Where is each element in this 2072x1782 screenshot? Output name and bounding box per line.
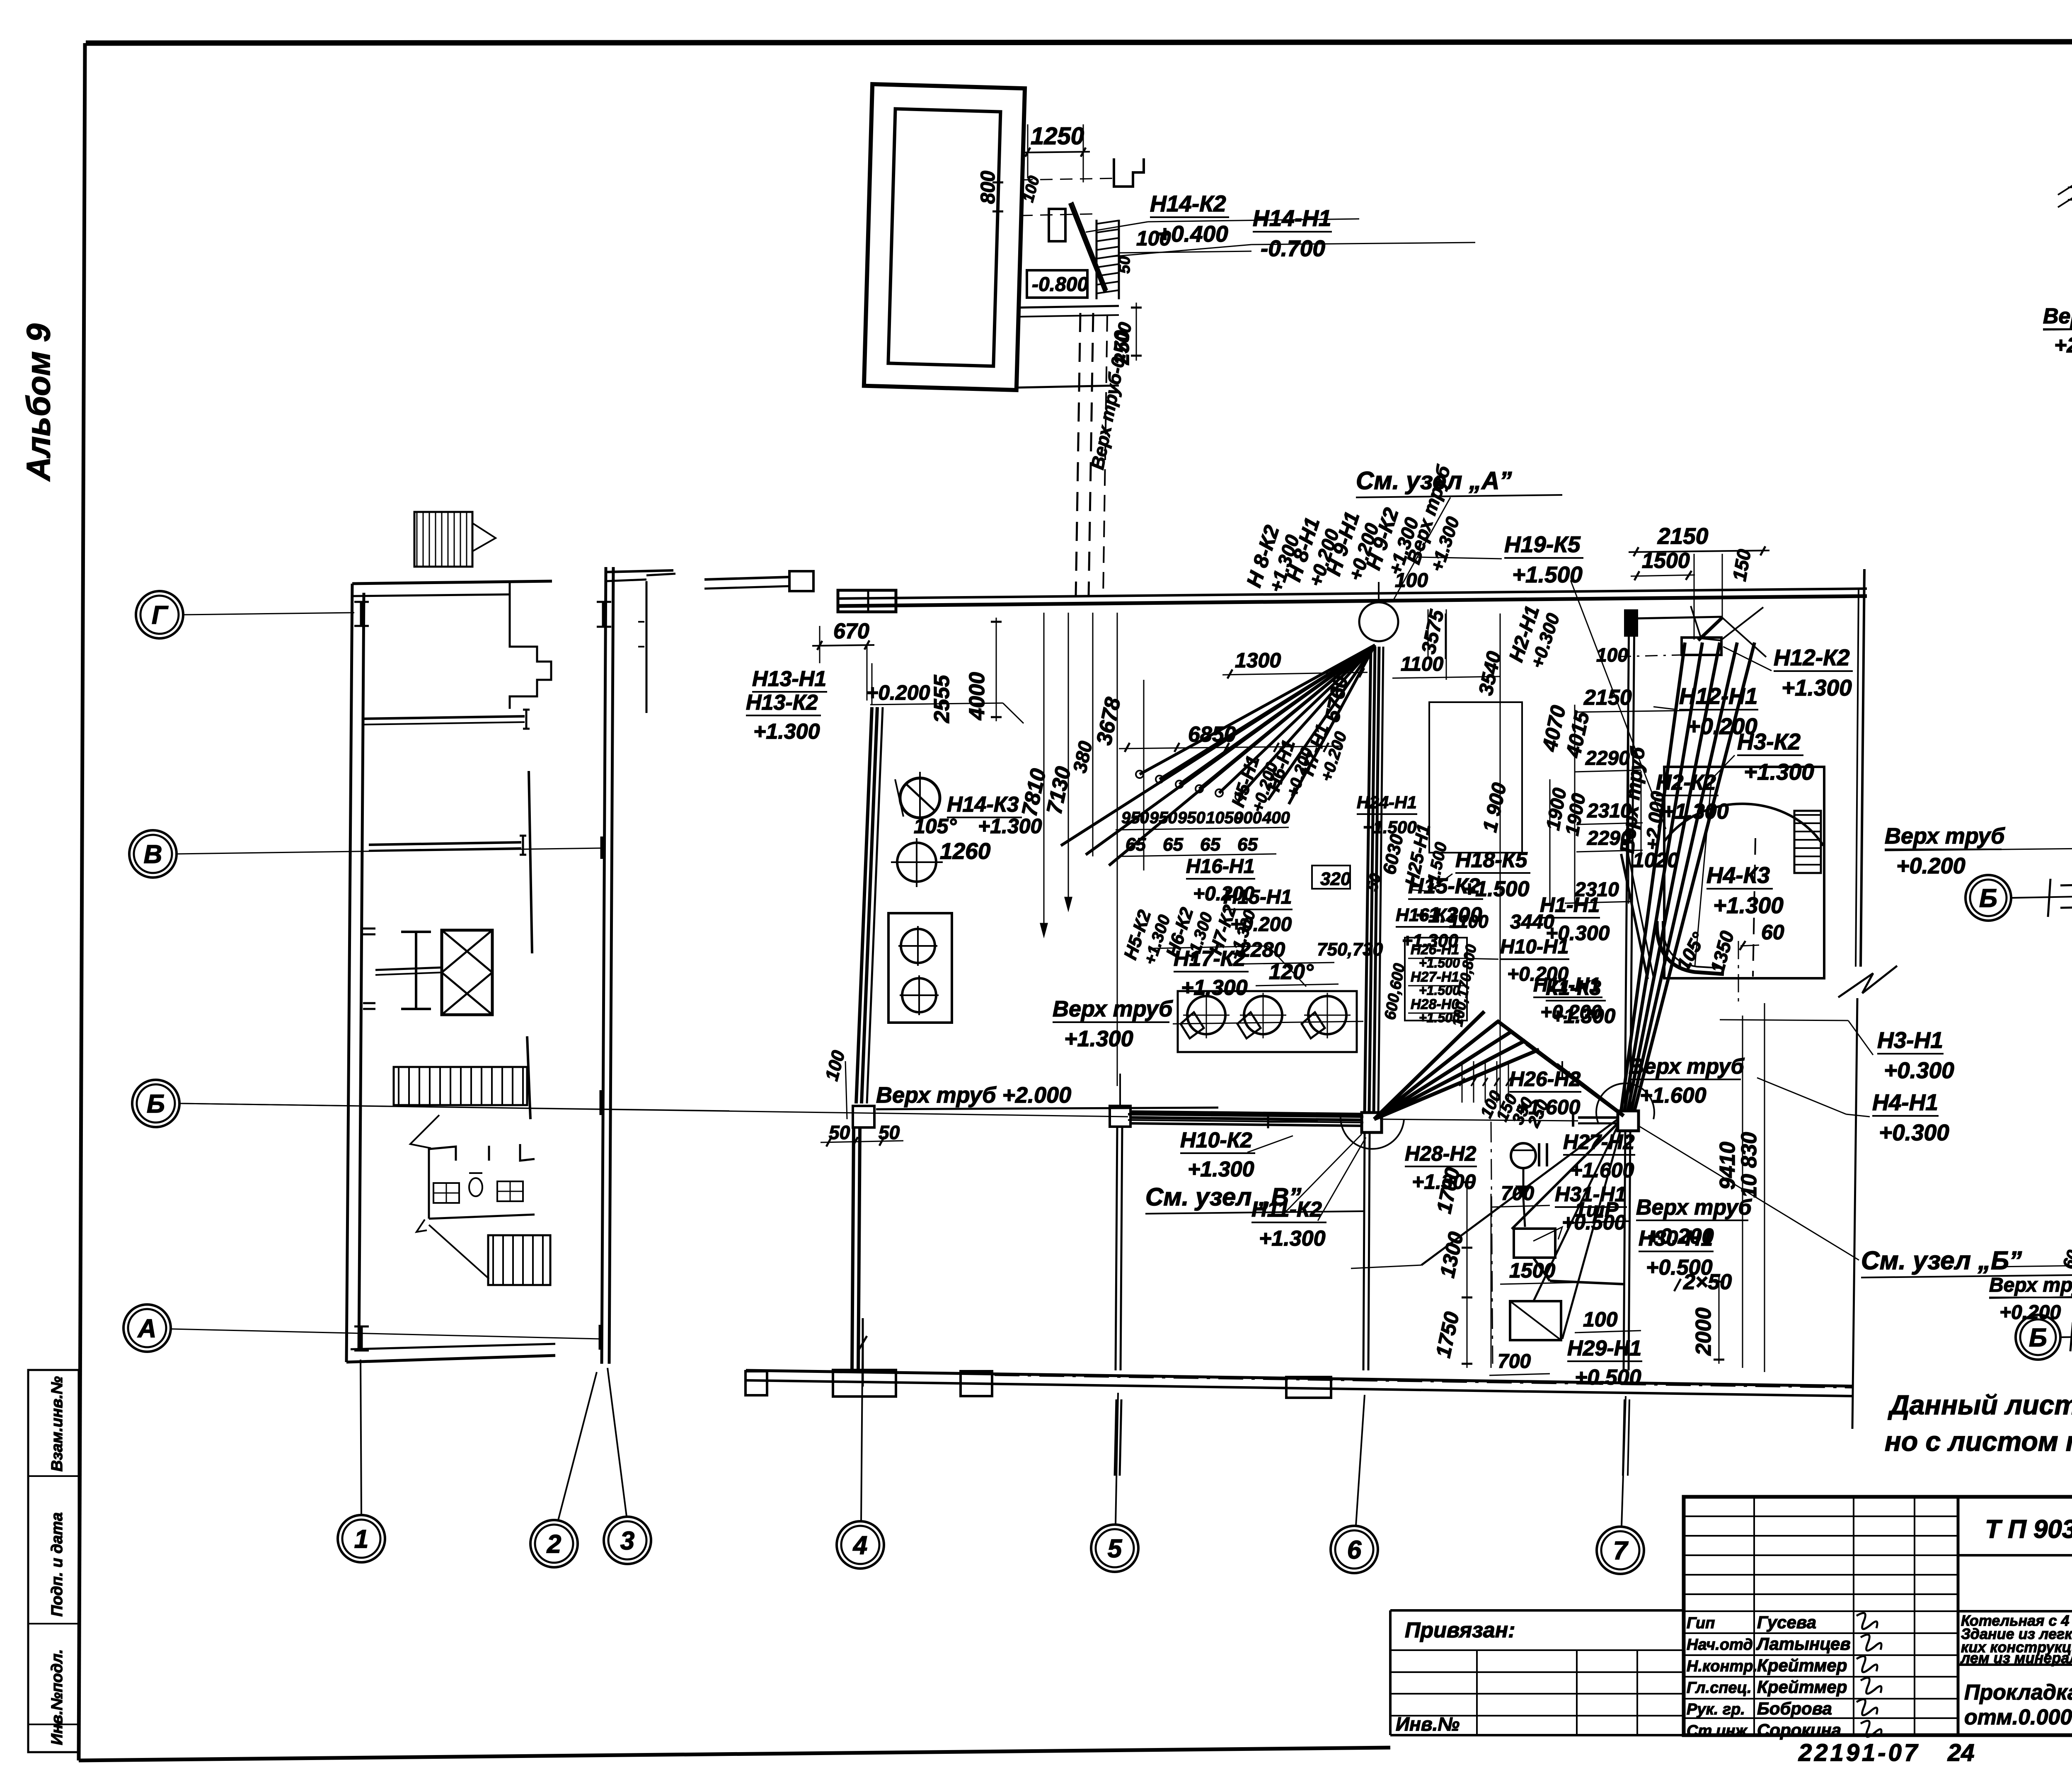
label H10-K2 +1.300 xyxy=(1180,1128,1255,1181)
svg-text:1: 1 xyxy=(354,1525,368,1554)
uzel B arrow pipe from circle xyxy=(2012,895,2072,898)
svg-text:Н16-К2: Н16-К2 xyxy=(1396,905,1457,925)
main plan bottom wall xyxy=(746,1370,1852,1386)
axis circle 2 xyxy=(530,1520,578,1567)
svg-text:См. узел „Б”: См. узел „Б” xyxy=(1861,1246,2022,1275)
svg-text:100: 100 xyxy=(1583,1308,1618,1331)
svg-text:2310: 2310 xyxy=(1587,800,1631,822)
svg-text:+0.300: +0.300 xyxy=(1884,1057,1954,1083)
sheet frame left border xyxy=(79,43,85,1760)
label H18-K5 +1.500 xyxy=(1455,848,1530,901)
svg-text:Н4-К3: Н4-К3 xyxy=(1706,862,1770,888)
fan rays from top riser point xyxy=(1140,645,1375,774)
flow device circle at top of riser xyxy=(1359,602,1398,641)
far detached wall piece with end block xyxy=(704,577,789,579)
svg-text:Н13-К2: Н13-К2 xyxy=(746,691,818,715)
svg-text:+1.300: +1.300 xyxy=(753,720,820,744)
fan rays from hub2 down-left xyxy=(1421,1119,1618,1265)
svg-text:Н18-К5: Н18-К5 xyxy=(1455,848,1528,872)
label H13-H1 +0.200 / H13-K2 +1.300 xyxy=(752,667,827,692)
svg-text:Привязан:: Привязан: xyxy=(1405,1618,1515,1642)
uzel A horizontal pipe pair xyxy=(2068,185,2072,187)
axis 4 tick cross xyxy=(862,1318,864,1387)
svg-text:Данный лист рассматривать совм: Данный лист рассматривать совмест- xyxy=(1888,1389,2072,1420)
svg-text:Латынцев: Латынцев xyxy=(1756,1634,1851,1654)
stair flight with treads xyxy=(394,1067,527,1105)
label H14-H1 -0.700 xyxy=(1253,205,1332,261)
pipe bundle H13 from tank line down-left xyxy=(856,707,872,1103)
svg-text:Н.контр.: Н.контр. xyxy=(1687,1658,1757,1675)
svg-text:См. узел „А”: См. узел „А” xyxy=(1356,467,1512,495)
label H12-H1 +0.200 xyxy=(1679,683,1758,739)
right wall break symbol xyxy=(1838,966,1897,997)
label K1-K3 +1.300 xyxy=(1546,976,1616,1028)
axis 6 leader xyxy=(1356,1395,1365,1525)
label H29-H1 +0.500 xyxy=(1567,1336,1642,1389)
svg-text:2310: 2310 xyxy=(1574,879,1619,901)
pier rect right of tank xyxy=(1049,209,1065,241)
pipe bundle hub2 rising to top wall xyxy=(1621,642,1685,1111)
svg-text:Прокладка труб. План на: Прокладка труб. План на xyxy=(1964,1680,2072,1704)
svg-text:2290: 2290 xyxy=(1585,747,1630,769)
svg-text:Н14-К3: Н14-К3 xyxy=(947,793,1019,817)
dim chain verticals xyxy=(1043,613,1045,936)
dim verticals 380 3575 area xyxy=(1428,609,1429,659)
fuel tank inner wall xyxy=(888,109,1000,366)
axis circle 3 xyxy=(604,1517,651,1564)
building top wall xyxy=(352,581,552,584)
svg-text:100: 100 xyxy=(1596,644,1628,666)
svg-text:Крейтмер: Крейтмер xyxy=(1757,1656,1847,1675)
equipment rect H29 box xyxy=(1510,1301,1561,1340)
svg-text:+1.300: +1.300 xyxy=(1064,1026,1133,1051)
svg-text:7: 7 xyxy=(1613,1537,1629,1565)
svg-text:Альбом 9: Альбом 9 xyxy=(20,323,57,482)
valve circle near axis 7 area xyxy=(1511,1143,1536,1168)
svg-text:950: 950 xyxy=(1121,809,1149,827)
washroom fixtures - toilet xyxy=(469,1178,482,1196)
svg-text:Н14-Н1: Н14-Н1 xyxy=(1253,205,1331,231)
svg-text:Н17-К2: Н17-К2 xyxy=(1174,947,1246,971)
svg-text:Г: Г xyxy=(152,601,169,630)
svg-text:65: 65 xyxy=(1163,834,1183,855)
funnel lines to H12 box xyxy=(1691,606,1763,640)
pump circle 1260 xyxy=(897,843,936,882)
thick rays from center cluster into hub2 xyxy=(1497,1021,1624,1116)
label H27-H2 +1.600 / H31-H1 +0.500 xyxy=(1563,1130,1635,1182)
svg-text:Н30-Н1: Н30-Н1 xyxy=(1639,1227,1713,1251)
svg-text:Боброва: Боброва xyxy=(1757,1699,1832,1718)
svg-text:1шР: 1шР xyxy=(1575,1198,1619,1221)
pipe elbow to H30 xyxy=(1523,1198,1525,1227)
equipment rect 1500 box xyxy=(1514,1229,1555,1258)
svg-text:2150: 2150 xyxy=(1657,523,1709,549)
label верх труб +1.300 above boilers xyxy=(1053,996,1173,1051)
svg-text:Б: Б xyxy=(147,1090,165,1118)
svg-text:Подп. и дата: Подп. и дата xyxy=(48,1512,66,1617)
dim 1750 tick line bottom xyxy=(1491,1194,1492,1368)
label H1-H1 +0.300 xyxy=(1540,893,1610,945)
axis 2 leader xyxy=(558,1372,597,1520)
pump valve circle H14-K3 xyxy=(900,778,940,818)
svg-text:3440: 3440 xyxy=(1510,911,1554,933)
svg-text:Н10-К2: Н10-К2 xyxy=(1180,1128,1252,1152)
svg-text:700: 700 xyxy=(1501,1183,1534,1205)
svg-text:Нач.отд: Нач.отд xyxy=(1687,1636,1753,1654)
svg-text:Н24-Н1: Н24-Н1 xyxy=(1357,793,1417,812)
dash-dot partition center line xyxy=(1491,1122,1493,1364)
I-beam column symbol xyxy=(401,931,431,933)
svg-text:Сорокина: Сорокина xyxy=(1757,1720,1841,1740)
pipe stub left of hub2 xyxy=(1578,1116,1618,1119)
interior partition wall 1 xyxy=(363,716,525,719)
svg-text:+0.200: +0.200 xyxy=(866,681,930,704)
svg-text:+1.600: +1.600 xyxy=(1640,1084,1706,1108)
label H11-H1 +0.200 xyxy=(1533,974,1602,1023)
svg-text:+1.600: +1.600 xyxy=(1516,1096,1581,1119)
svg-text:1100: 1100 xyxy=(1449,912,1489,932)
elevation box -0.800 xyxy=(1027,270,1087,298)
svg-text:320: 320 xyxy=(1320,869,1351,889)
leader to uzel B detail xyxy=(1996,1264,2072,1267)
washroom partitions xyxy=(429,1147,456,1219)
svg-text:1500: 1500 xyxy=(1509,1259,1555,1282)
svg-text:Верх труб: Верх труб xyxy=(1636,1195,1752,1220)
label H17-K2 +1.300 xyxy=(1174,947,1249,1000)
storage tank rect with dome xyxy=(1664,767,1824,978)
wall step shape right of tank xyxy=(1114,158,1144,187)
svg-text:Крейтмер: Крейтмер xyxy=(1757,1677,1847,1697)
svg-text:Верх труб: Верх труб xyxy=(2043,304,2072,328)
svg-text:+0.200: +0.200 xyxy=(1687,713,1757,739)
axis 4 leader xyxy=(861,1318,863,1521)
bottom wall inner dash line xyxy=(995,1375,1852,1388)
svg-text:отм.0.000 в осях „1-7”: отм.0.000 в осях „1-7” xyxy=(1964,1705,2072,1729)
svg-text:105°: 105° xyxy=(914,815,957,838)
svg-text:-0.700: -0.700 xyxy=(1261,235,1325,261)
elbow pipe H4-K3 xyxy=(1657,921,1724,974)
svg-text:9410: 9410 xyxy=(1716,1142,1740,1190)
label H24-H1 +1.500 xyxy=(1357,793,1417,837)
axis circle 7 xyxy=(1597,1527,1644,1574)
svg-text:Верх труб: Верх труб xyxy=(1989,1274,2072,1296)
svg-text:+1.600: +1.600 xyxy=(1570,1159,1634,1182)
svg-text:Н4-Н1: Н4-Н1 xyxy=(1872,1089,1938,1115)
short wall piece above hub1 xyxy=(1268,1121,1318,1123)
labels H4-H1 +0.300 xyxy=(1872,1089,1949,1145)
labels H15 H16 cluster xyxy=(1186,856,1255,905)
svg-text:Н11-К2: Н11-К2 xyxy=(1251,1198,1322,1222)
axis А leader line xyxy=(171,1329,600,1339)
svg-text:Верх труб: Верх труб xyxy=(1629,1055,1745,1079)
axis circle В xyxy=(129,830,177,878)
svg-text:670: 670 xyxy=(833,619,869,643)
svg-text:2290: 2290 xyxy=(1587,827,1631,849)
tank ladder rungs xyxy=(1794,811,1821,873)
svg-text:Н14-К2: Н14-К2 xyxy=(1150,191,1226,216)
svg-text:+1.300: +1.300 xyxy=(978,815,1042,838)
svg-text:+1.300: +1.300 xyxy=(1259,1227,1326,1251)
main plan right wall xyxy=(1861,569,1864,967)
svg-text:+0.500: +0.500 xyxy=(1575,1365,1641,1389)
svg-text:+0.200: +0.200 xyxy=(1540,1001,1602,1023)
svg-text:Н10-Н1: Н10-Н1 xyxy=(1500,936,1569,958)
line Sm uzel B pointer xyxy=(1351,1265,1421,1268)
svg-text:лем из минераловатных плит.: лем из минераловатных плит. xyxy=(1960,1649,2072,1666)
axis 1 leader xyxy=(361,1360,361,1515)
wall pieces near hub2 left xyxy=(1561,1061,1563,1078)
label Верх труб +0.200 left xyxy=(1885,824,2005,878)
svg-text:50: 50 xyxy=(829,1122,850,1143)
section wall stub marks xyxy=(602,602,605,627)
svg-text:+0.200: +0.200 xyxy=(1230,914,1292,936)
svg-text:Ст.инж.: Ст.инж. xyxy=(1687,1722,1751,1740)
svg-text:5: 5 xyxy=(1108,1535,1123,1563)
label H26-H2 +1.600 xyxy=(1509,1067,1581,1119)
long partition right xyxy=(529,771,532,953)
title block outer and grid xyxy=(1684,1497,2072,1735)
uzel B axis Б circle left xyxy=(1965,875,2011,921)
vertical dim lines right cluster xyxy=(1445,613,1446,659)
chimney hatched block above plan xyxy=(414,512,472,567)
axis Б line across plan xyxy=(180,1103,1128,1117)
pipe bundle along axis Б into hub1 xyxy=(1131,1112,1362,1114)
svg-text:+1.300: +1.300 xyxy=(1744,759,1814,785)
svg-text:6: 6 xyxy=(1347,1536,1362,1564)
label H19-K5 +1.500 xyxy=(1504,531,1583,587)
svg-text:В: В xyxy=(144,840,162,869)
svg-text:2555: 2555 xyxy=(930,674,954,723)
svg-text:Н11-Н1: Н11-Н1 xyxy=(1533,974,1600,996)
svg-text:65: 65 xyxy=(1200,834,1220,855)
dashed line right of tank xyxy=(1753,838,1755,977)
axis circle А xyxy=(123,1304,171,1352)
svg-text:950: 950 xyxy=(1150,809,1177,827)
building bottom wall xyxy=(346,1355,555,1362)
svg-text:Гл.спец.: Гл.спец. xyxy=(1687,1679,1752,1697)
svg-text:Инв.№подл.: Инв.№подл. xyxy=(48,1649,66,1745)
axis Б leader line xyxy=(180,1103,729,1111)
tank outlet dashed pipes down xyxy=(1076,313,1080,596)
svg-text:Инв.№: Инв.№ xyxy=(1396,1713,1460,1735)
svg-text:Н28-Н2: Н28-Н2 xyxy=(1405,1142,1476,1165)
svg-text:750,730: 750,730 xyxy=(1317,939,1383,960)
sheet frame top border xyxy=(86,41,2072,43)
thick rays from center cluster into hub1 xyxy=(1374,1011,1484,1119)
washroom fixtures - sink left xyxy=(433,1183,459,1203)
svg-text:1100: 1100 xyxy=(1401,653,1444,675)
label H4-K3 +1.300 xyxy=(1706,862,1784,918)
platform below tank xyxy=(1019,306,1119,308)
building top-right wall jog xyxy=(510,581,551,709)
label H12-K2 +1.300 xyxy=(1774,645,1853,701)
svg-text:Верх труб: Верх труб xyxy=(1885,824,2005,849)
svg-text:Н27-Н2: Н27-Н2 xyxy=(1563,1130,1634,1154)
svg-text:700: 700 xyxy=(1498,1350,1531,1372)
label H28-H2 +1.300 xyxy=(1405,1142,1477,1193)
ladder hatch strip xyxy=(1096,220,1098,299)
axis 5 leader xyxy=(1116,1393,1118,1524)
tank leader dash line xyxy=(1020,178,1119,180)
svg-text:Н12-К2: Н12-К2 xyxy=(1774,645,1850,670)
svg-text:А: А xyxy=(137,1314,157,1343)
uzel V pipe from left circle xyxy=(2060,1336,2072,1337)
elevator shaft with X bracing xyxy=(442,930,492,1015)
svg-text:Н29-Н1: Н29-Н1 xyxy=(1567,1336,1641,1360)
V node to H12 box xyxy=(1698,618,1722,640)
svg-text:3: 3 xyxy=(620,1527,634,1555)
svg-text:но с листом т.п 903-1-244.87 -: но с листом т.п 903-1-244.87 -ЭМ1-22 xyxy=(1885,1426,2072,1457)
interior wall stub pier xyxy=(363,928,375,930)
pipe from riser to V node under wall xyxy=(1634,617,1722,618)
sheet frame bottom border xyxy=(79,1748,1390,1760)
svg-text:Н19-К5: Н19-К5 xyxy=(1504,531,1581,557)
pipe H14 slanted xyxy=(1070,203,1106,293)
svg-text:+1.300: +1.300 xyxy=(1713,892,1784,918)
axis circle Б (left) xyxy=(132,1080,179,1127)
title block right divider lines xyxy=(1958,1554,2072,1557)
label верх труб +0.200 right xyxy=(1636,1195,1752,1249)
inner rectangle dim box (1 900 region) xyxy=(1429,702,1522,853)
label верх труб +0.200 left xyxy=(1989,1274,2072,1324)
svg-text:2×50: 2×50 xyxy=(1683,1270,1732,1294)
svg-text:4: 4 xyxy=(852,1531,867,1560)
axis Г leader line xyxy=(184,613,354,615)
axis 7 leader xyxy=(1622,1396,1626,1526)
pipe from hub2 down to axis 7 xyxy=(1624,1131,1625,1370)
svg-text:Н13-Н1: Н13-Н1 xyxy=(752,667,826,691)
svg-text:50: 50 xyxy=(1116,256,1133,274)
hub2 junction box (axis 7 x Б) xyxy=(1618,1111,1639,1131)
svg-text:65: 65 xyxy=(1237,834,1258,855)
svg-text:Н12-Н1: Н12-Н1 xyxy=(1679,683,1758,709)
svg-text:800: 800 xyxy=(977,171,999,204)
svg-text:Взам.инв.№: Взам.инв.№ xyxy=(48,1376,66,1472)
label Верх труб +2.000 left xyxy=(2043,304,2072,357)
pipe bundle hub1 rising to fan point xyxy=(1365,647,1371,1113)
svg-text:+0.200: +0.200 xyxy=(1896,853,1965,878)
interior partition wall 2 xyxy=(369,842,521,845)
axis circle 1 xyxy=(338,1515,385,1562)
pipe H13 junction box at axis Б xyxy=(853,1106,874,1127)
svg-text:Н15-Н1: Н15-Н1 xyxy=(1223,886,1292,908)
lower stair hatch xyxy=(488,1235,550,1285)
svg-text:Н15-К2: Н15-К2 xyxy=(1408,874,1480,898)
axis circle 4 xyxy=(837,1521,884,1569)
svg-text:Т П 903-1-244.87: Т П 903-1-244.87 xyxy=(1985,1515,2072,1544)
left attachment table xyxy=(1390,1609,1684,1612)
washroom fixtures - sink right xyxy=(497,1181,523,1201)
svg-text:+1.300: +1.300 xyxy=(1662,800,1729,824)
pipe from hub1 down to axis 6 xyxy=(1363,1132,1365,1370)
H12 equipment box xyxy=(1682,638,1721,655)
svg-text:Гусева: Гусева xyxy=(1757,1612,1816,1632)
dim arrows on verticals xyxy=(1041,924,1047,936)
pipe continues below bottom wall xyxy=(1115,1399,1116,1476)
svg-text:+1.300: +1.300 xyxy=(1188,1157,1254,1181)
svg-text:1500: 1500 xyxy=(1642,549,1690,573)
hub1 junction box (axis 6 x Б) xyxy=(1362,1113,1382,1132)
building outer wall left xyxy=(346,584,352,1362)
svg-text:2280: 2280 xyxy=(1239,938,1285,961)
svg-text:1260: 1260 xyxy=(940,838,991,864)
junction box on axis Б pipe xyxy=(1110,1106,1130,1127)
svg-text:2: 2 xyxy=(547,1530,561,1559)
svg-text:-0.800: -0.800 xyxy=(1032,274,1088,296)
label H14-K2 +0.400 xyxy=(1150,191,1229,247)
svg-text:10 830: 10 830 xyxy=(1737,1132,1761,1198)
svg-text:950: 950 xyxy=(1178,809,1205,827)
label H3-K2 +1.300 xyxy=(1737,729,1814,785)
svg-text:Н2-К2: Н2-К2 xyxy=(1656,771,1716,795)
axis circle 5 xyxy=(1091,1525,1138,1572)
pier block at riser-wall joint xyxy=(1625,611,1637,635)
three boiler circles with diamonds xyxy=(1178,991,1357,1052)
label верх труб +1.600 right xyxy=(1629,1055,1745,1108)
vertical dim lines near 1500 dim xyxy=(1694,554,1695,640)
svg-text:2150: 2150 xyxy=(1583,686,1632,710)
svg-text:Н26-Н2: Н26-Н2 xyxy=(1509,1067,1581,1091)
uzel V axis Б circle left xyxy=(2016,1315,2060,1360)
top wall left end block xyxy=(838,590,896,612)
svg-text:1300: 1300 xyxy=(1235,649,1281,672)
long vertical dim line left xyxy=(867,645,868,701)
pipes crossing near K1-K3 xyxy=(1621,854,1648,979)
svg-text:1020: 1020 xyxy=(1633,849,1679,872)
svg-text:65: 65 xyxy=(1126,834,1146,855)
svg-text:Гип: Гип xyxy=(1687,1615,1715,1632)
axis 7 riser pair up to wall xyxy=(1625,611,1629,1111)
svg-text:Рук. гр.: Рук. гр. xyxy=(1687,1701,1745,1718)
axis В leader line xyxy=(177,848,602,854)
svg-text:100: 100 xyxy=(1136,227,1171,250)
right wall below break xyxy=(1852,998,1857,1429)
svg-text:+0.300: +0.300 xyxy=(1879,1120,1949,1145)
dim ticks cluster above hub fan xyxy=(1462,1061,1463,1103)
stack labels H26-H1 H27-H1 H28-H2 small xyxy=(1405,938,1467,1021)
labels H3-H1 +0.300 xyxy=(1877,1027,1954,1083)
label H11-K2 +1.300 xyxy=(1251,1198,1326,1251)
svg-text:Б: Б xyxy=(2029,1324,2047,1352)
label H14-K3 105 +1.300 xyxy=(947,793,1022,817)
equipment box with two pumps xyxy=(888,913,952,1023)
svg-text:Б: Б xyxy=(1979,884,1997,913)
upper detached wall piece (axis 2-3 top) xyxy=(646,581,648,713)
svg-text:100: 100 xyxy=(1395,570,1428,592)
dash-dot axis into tank xyxy=(1738,941,1739,1007)
svg-text:+2.000: +2.000 xyxy=(2054,333,2072,357)
main plan top wall xyxy=(837,596,1867,606)
axis circle Г xyxy=(136,591,183,638)
small circles at fan ray ends xyxy=(1136,771,1143,778)
svg-text:Н3-Н1: Н3-Н1 xyxy=(1877,1027,1943,1053)
bottom wall column boxes xyxy=(746,1371,767,1395)
pipe along axis Б to hub1 xyxy=(1128,1114,1363,1117)
leader from hub2 to Sm uzel B xyxy=(1639,1126,1859,1260)
svg-text:Верх труб +2.000: Верх труб +2.000 xyxy=(876,1083,1071,1108)
pipe down from axis Б junction to bottom xyxy=(1116,1127,1117,1370)
axis line tick marks on building xyxy=(360,602,363,626)
label H2-K2 +1.300 xyxy=(1656,771,1729,824)
svg-text:Верх труб: Верх труб xyxy=(1053,996,1173,1021)
axis 3 leader xyxy=(608,1368,627,1516)
svg-text:22191-07: 22191-07 xyxy=(1798,1739,1920,1766)
section wall strip (axis 2-3 walls) xyxy=(602,567,606,1364)
svg-text:24: 24 xyxy=(1947,1739,1975,1766)
svg-text:4000: 4000 xyxy=(965,672,989,720)
left edge vertical stamp strip xyxy=(28,1370,79,1752)
svg-text:60: 60 xyxy=(1761,921,1784,944)
